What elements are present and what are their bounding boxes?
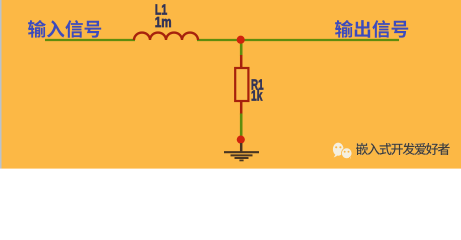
wire: vertical to ground [240,114,243,138]
resistor top lead [240,55,243,69]
svg-text:1k: 1k [251,88,263,105]
watermark wechat icon small bubble [341,148,351,160]
wire: input segment [45,39,135,41]
watermark text 嵌入式开发爱好者 glow [356,143,450,155]
resistor bottom lead [240,101,243,115]
junction node on main wire [237,36,245,44]
net label 输入信号 (input signal) [28,20,101,38]
svg-text:1m: 1m [155,14,172,31]
net label 输出信号 (output signal) [335,20,408,38]
resistor R1 body [235,68,248,101]
watermark wechat icon big bubble [333,143,344,158]
wire: vertical from node to resistor [240,42,243,56]
ground [224,143,259,160]
wire: output segment [197,39,399,41]
junction node at ground [237,136,245,144]
watermark text 嵌入式开发爱好者 [356,143,450,155]
inductor L1 [134,33,198,40]
